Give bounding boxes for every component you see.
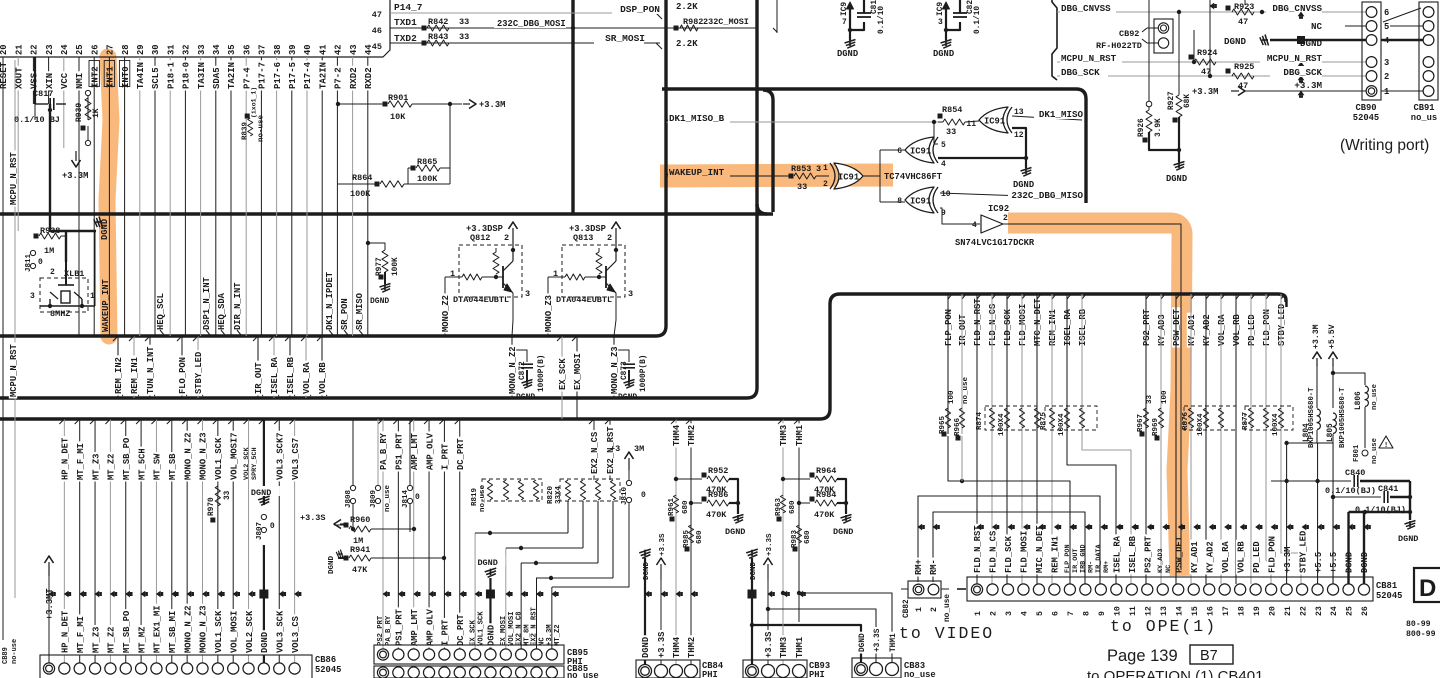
wire MCU pin 28 (INT0) <box>124 57 126 336</box>
svg-text:no_use: no_use <box>904 670 936 678</box>
connector CB84 outline <box>636 660 700 678</box>
svg-text:1K: 1K <box>92 108 101 118</box>
svg-text:L806: L806 <box>1355 391 1363 410</box>
wire box column KY_AD3 <box>1160 294 1162 584</box>
svg-text:NC: NC <box>1311 21 1323 32</box>
wire thick bus V3+H5 (x=757 / y=398) <box>0 0 757 398</box>
svg-text:DGND: DGND <box>487 625 497 646</box>
wire box column FLD_N_RST <box>976 294 978 584</box>
wire dogleg IR_OUT <box>961 294 963 434</box>
wire VSS thick <box>34 57 36 104</box>
svg-text:VOL3_CS: VOL3_CS <box>291 616 301 653</box>
svg-text:no_use: no_use <box>479 484 487 512</box>
wire CB95 pin8 <box>489 578 491 649</box>
svg-text:SR_MISO: SR_MISO <box>355 293 365 330</box>
wire box column KY_AD1 <box>1190 294 1192 584</box>
net label MTC_N_DET (top) <box>1033 297 1041 348</box>
svg-text:0.1/10(BJ): 0.1/10(BJ) <box>1355 505 1406 515</box>
connector CB83 outline <box>852 658 901 678</box>
net label MONO_Z2 <box>441 293 449 333</box>
svg-text:MCPU_N_RST: MCPU_N_RST <box>1061 53 1117 64</box>
resistor array R819 no_use dashed <box>482 479 542 501</box>
wire EX_MOSI band <box>576 336 578 419</box>
net label MT_Z2 (lower) <box>106 625 114 655</box>
connector CB90 pin 4 <box>1366 35 1377 46</box>
svg-text:INT0: INT0 <box>121 66 131 88</box>
wire staircase 3 riser <box>597 501 599 563</box>
net label AMP_LMT (upper) <box>410 431 418 471</box>
junction marker CB86 +3.3MT <box>49 591 54 598</box>
junction marker CB95 pin11 <box>536 591 541 598</box>
svg-text:MT_EX1_MI: MT_EX1_MI <box>153 605 163 653</box>
net label MCPU_N_RST (right) <box>1260 52 1322 63</box>
connector CB85 pin 4 circle <box>423 667 434 678</box>
svg-text:WAKEUP_INT: WAKEUP_INT <box>669 167 725 178</box>
svg-text:KY_AD3: KY_AD3 <box>1157 549 1165 573</box>
svg-text:PS2_PRT: PS2_PRT <box>377 615 385 646</box>
svg-text:100: 100 <box>948 390 956 404</box>
junction marker CB81-4 <box>1023 524 1028 531</box>
svg-text:MTC_N_DET: MTC_N_DET <box>1033 298 1043 346</box>
net label DGND (CB84 lower) <box>641 635 649 659</box>
svg-text:MT_SB_PO: MT_SB_PO <box>122 438 132 480</box>
connector CB86 pin 15 <box>258 663 269 674</box>
svg-text:MONO_N_Z2: MONO_N_Z2 <box>183 605 193 653</box>
connector CB86 outline <box>40 655 312 678</box>
svg-text:R969: R969 <box>1152 417 1160 436</box>
svg-text:no_use: no_use <box>1371 438 1379 464</box>
connector CB95 pin 8 circle <box>485 649 496 660</box>
net label VOL_RB (CB81) <box>1236 540 1244 575</box>
net label +5.5 (CB81) <box>1313 550 1321 574</box>
connector CB90 pin 1 <box>1366 86 1377 97</box>
net label VOL2_SCK (lower) <box>244 609 252 654</box>
svg-text:VOL3_SCK7: VOL3_SCK7 <box>275 432 285 480</box>
svg-text:1: 1 <box>915 607 924 612</box>
svg-text:VOL_MOSI7: VOL_MOSI7 <box>229 432 239 480</box>
svg-text:22: 22 <box>30 44 40 55</box>
wire C841 left riser <box>1332 497 1334 584</box>
connector CB86 pin 16 <box>274 663 285 674</box>
junction marker RM <box>918 524 923 531</box>
svg-text:13: 13 <box>1160 606 1169 616</box>
svg-text:SR_MOSI: SR_MOSI <box>605 33 645 44</box>
junction markers top wires <box>1210 3 1215 10</box>
connector CB93 pin 1 <box>746 665 759 678</box>
svg-text:DGND: DGND <box>837 49 858 59</box>
net label AMP_OLV (upper) <box>425 431 433 471</box>
net label P17-4 <box>303 60 311 90</box>
svg-text:TA2IN: TA2IN <box>318 62 328 89</box>
resistor R965 100 (box) <box>945 408 950 428</box>
net label TUN_N_INT <box>146 345 154 396</box>
svg-text:52045: 52045 <box>315 665 341 675</box>
svg-text:no_use: no_use <box>567 671 599 678</box>
wire box column FLD_MOSI <box>1021 294 1023 584</box>
svg-text:TA3IN: TA3IN <box>197 62 207 89</box>
net label REM_IN1 <box>130 355 138 395</box>
svg-text:24: 24 <box>1330 606 1339 616</box>
net label TA2IN <box>318 60 326 90</box>
svg-text:R864: R864 <box>352 173 372 183</box>
svg-text:SPRY_5CH: SPRY_5CH <box>251 447 259 480</box>
wire DK1_MISO_B <box>666 121 938 123</box>
svg-text:DSP1_N_INT: DSP1_N_INT <box>202 276 212 330</box>
svg-text:P7-4: P7-4 <box>242 67 252 89</box>
wire MCPU_N_RST <box>1057 61 1368 63</box>
svg-text:5: 5 <box>1036 611 1045 616</box>
svg-text:P17-5: P17-5 <box>288 62 298 89</box>
wire STBY_LED stub <box>197 336 199 398</box>
ground DGND (IC91) <box>1025 158 1027 168</box>
U801 MCU bottom edge <box>0 0 390 57</box>
wire TXD2/SR_MOSI <box>390 42 660 44</box>
svg-text:26: 26 <box>1361 606 1370 616</box>
wire MCU pin 23 (XIN) <box>48 57 50 104</box>
svg-text:3: 3 <box>1005 611 1014 616</box>
svg-text:470K: 470K <box>706 510 727 520</box>
svg-text:MT_SW: MT_SW <box>153 453 163 480</box>
junction marker CB81-17 <box>1224 524 1229 531</box>
wire L805 to +5.5 cols <box>1318 442 1333 444</box>
svg-text:R977: R977 <box>376 257 384 276</box>
svg-text:PHI: PHI <box>809 670 825 678</box>
wire MCU pin 39 (P17-5) <box>291 57 293 336</box>
svg-text:RESET: RESET <box>0 61 9 89</box>
wire MCU pin 38 (P17-6) <box>276 57 278 336</box>
svg-text:52045: 52045 <box>1353 113 1379 123</box>
svg-text:34: 34 <box>212 44 222 55</box>
connector CB86 pin 6 <box>120 663 131 674</box>
svg-text:EX_MOSI: EX_MOSI <box>573 353 583 390</box>
svg-text:VOL2_SCK: VOL2_SCK <box>243 446 251 480</box>
wire MCU pin 32 (P18-0) <box>184 57 186 336</box>
svg-text:AMP_OLV: AMP_OLV <box>425 608 435 646</box>
svg-text:P14_7: P14_7 <box>394 2 423 13</box>
svg-text:no_us: no_us <box>1411 113 1437 123</box>
wire staircase 2 <box>506 547 583 549</box>
svg-text:100K: 100K <box>350 189 371 199</box>
svg-text:THM3: THM3 <box>779 637 789 658</box>
junction marker CB95 pin8 <box>486 590 495 599</box>
svg-text:0.1/10: 0.1/10 <box>974 6 982 34</box>
net label FLO_PON <box>178 355 186 395</box>
wire MCU pin 34 (SDA5) <box>215 57 217 336</box>
net label EX_SCK <box>558 357 566 392</box>
svg-text:R926: R926 <box>1138 118 1146 137</box>
wire gate-A output split <box>863 150 905 202</box>
svg-text:C872: C872 <box>519 361 527 380</box>
svg-text:ISEL_RB: ISEL_RB <box>1078 308 1088 346</box>
wire WAKEUP_INT <box>666 175 790 177</box>
ground DGND (CB95) <box>477 556 505 566</box>
svg-text:REM_IN1: REM_IN1 <box>1051 536 1061 573</box>
svg-text:3: 3 <box>628 289 633 299</box>
svg-text:+3.3DSP: +3.3DSP <box>569 224 606 234</box>
svg-text:TA4IN: TA4IN <box>136 62 146 89</box>
svg-text:REM_IN1: REM_IN1 <box>1048 309 1058 346</box>
wire MCU pin 29 (TA4IN) <box>139 57 141 336</box>
svg-text:PS2_PRT: PS2_PRT <box>1142 308 1152 346</box>
wire left edge double <box>2 57 4 640</box>
connector CB89 no-use stub <box>0 646 8 666</box>
net label FLD_SCK (CB81) <box>1004 534 1012 574</box>
net label 232C_DBG_MISO <box>1008 189 1084 200</box>
svg-text:DSP_PON: DSP_PON <box>620 4 660 15</box>
svg-text:3: 3 <box>30 292 35 301</box>
junction marker CB95 pin9 <box>505 591 510 598</box>
wire CB86 MT_SB_MI <box>171 419 173 663</box>
svg-text:R984: R984 <box>816 490 836 500</box>
svg-text:VOL3_SCK: VOL3_SCK <box>275 610 285 653</box>
svg-text:3.9K: 3.9K <box>1155 118 1163 137</box>
net label PS1_PRT <box>394 607 402 647</box>
svg-text:FLP_PON: FLP_PON <box>944 309 954 346</box>
wire box column FLD_SCK <box>1006 294 1008 584</box>
wire CB86 MT_MZ <box>140 419 142 663</box>
wire MCU pin 25 (NMI) <box>78 57 80 336</box>
resistor R819 element 1 <box>487 480 492 500</box>
connector CB91 pin 1 <box>1423 86 1434 97</box>
ground DGND (R952/R986) <box>737 503 739 514</box>
connector CB95 pin 7 circle <box>470 649 481 660</box>
svg-text:2: 2 <box>990 611 999 616</box>
highlight WAKEUP_INT vertical trace (INT2 column) <box>107 57 111 336</box>
connector CB81 pin 14 <box>1173 584 1184 595</box>
svg-text:ISEL_RA: ISEL_RA <box>1063 308 1073 346</box>
svg-text:MT_SB_PO: MT_SB_PO <box>122 611 132 653</box>
net label P18-0 <box>181 60 189 90</box>
svg-text:IC91: IC91 <box>838 173 859 183</box>
svg-text:10K: 10K <box>390 112 406 122</box>
svg-text:THM1: THM1 <box>795 425 805 446</box>
net label THM1 (CB83) <box>888 632 896 654</box>
resistor R901 10K <box>383 102 388 107</box>
buffer IC92 SN74LVC1G17DCKR <box>981 215 1003 233</box>
svg-text:30: 30 <box>151 44 161 55</box>
svg-text:3: 3 <box>1384 58 1389 68</box>
svg-text:XIN: XIN <box>45 73 55 89</box>
net label RXD2 <box>348 66 356 91</box>
connector CB86 pin 4 <box>89 663 100 674</box>
junction marker CB86 MT_Z3 <box>95 591 100 598</box>
net label MONO_N_Z2 (upper) <box>183 431 191 482</box>
junction marker CB86 DGND <box>259 590 268 599</box>
svg-text:CB91: CB91 <box>1413 103 1434 113</box>
junction marker DBG_CNVSS <box>1298 12 1305 17</box>
junction marker CB81-5 <box>1038 524 1043 531</box>
connector CB91 pin 2 <box>1423 71 1434 82</box>
wire staircase 4 riser <box>612 501 614 578</box>
svg-text:F801: F801 <box>1353 444 1361 462</box>
connector CB91 pin 4 <box>1423 35 1434 46</box>
svg-text:CB82: CB82 <box>903 599 911 618</box>
net label RM+ (CB82) <box>914 558 922 577</box>
junction marker CB81-24 <box>1333 524 1338 531</box>
svg-text:INT1: INT1 <box>106 66 116 88</box>
net label PD_LED (CB81) <box>1251 540 1259 575</box>
junction marker CB81-12 <box>1147 524 1152 531</box>
wire vert x=1194 <box>1193 30 1195 62</box>
svg-text:DGND: DGND <box>1166 174 1187 184</box>
net label MCPU_N_RST (lower) <box>9 342 17 398</box>
resistor R819 element 2 <box>503 480 508 500</box>
svg-text:no_use: no_use <box>384 484 392 512</box>
svg-text:THM1: THM1 <box>795 637 805 658</box>
wire CB95 pin2 <box>397 419 399 649</box>
wire dogleg ISEL_RB to pin11 <box>1082 294 1131 584</box>
net label DGND (CB83) <box>857 632 865 654</box>
svg-text:DGND: DGND <box>516 393 535 402</box>
resistor array R875 100X4 <box>1045 406 1097 430</box>
svg-text:21: 21 <box>1284 606 1293 616</box>
svg-text:I_PRT: I_PRT <box>441 619 451 646</box>
svg-text:+3.3S: +3.3S <box>659 533 667 556</box>
wire MCU pin 40 (P17-4) <box>306 57 308 336</box>
svg-text:IR_DATA: IR_DATA <box>1095 544 1103 573</box>
wire thick elbow V3-H1 <box>757 204 767 214</box>
net label VOL_RB <box>318 361 326 396</box>
connector CB83 pin 2 <box>870 663 883 676</box>
connector CB81 pin 21 <box>1281 584 1292 595</box>
crystal XLB1 dashed box <box>40 278 88 312</box>
svg-text:R876: R876 <box>1182 411 1190 430</box>
wire MCU pin 21 (XOUT) <box>17 57 19 231</box>
svg-text:52045: 52045 <box>1376 591 1402 601</box>
tie dash CB82-CB81 <box>957 588 966 590</box>
svg-text:2: 2 <box>1003 214 1008 223</box>
svg-text:FLD_SCK: FLD_SCK <box>1003 308 1013 346</box>
net label VOL3_SCK (lower) <box>275 609 283 654</box>
connector CB86 pin 5 <box>105 663 116 674</box>
capacitor C825 decoupling with IC9 pin3 <box>945 8 947 30</box>
svg-text:MT_Z2: MT_Z2 <box>554 624 562 646</box>
svg-text:P18-1: P18-1 <box>166 61 176 89</box>
svg-text:68K: 68K <box>1184 94 1192 108</box>
svg-text:HP_N_DET: HP_N_DET <box>61 610 71 653</box>
net label STBY_LED <box>194 350 202 395</box>
net label PS1_PRT (upper) <box>394 431 402 471</box>
wire CB81 DGND pins thick <box>1347 512 1349 584</box>
wire CB86 VOL_MOSI <box>232 419 234 663</box>
svg-text:PS1_PRT: PS1_PRT <box>395 432 405 470</box>
highlight WAKEUP_INT horizontal trace to IC91 <box>660 175 893 176</box>
net label EX2_N_RST <box>606 425 614 476</box>
svg-text:SDA5: SDA5 <box>212 67 222 89</box>
svg-text:DBG_CNVSS: DBG_CNVSS <box>1272 3 1322 14</box>
svg-text:33X4: 33X4 <box>555 485 563 504</box>
svg-text:232C_DBG_MISO: 232C_DBG_MISO <box>1011 190 1083 201</box>
svg-text:XOUT: XOUT <box>14 67 24 89</box>
svg-text:P17-7: P17-7 <box>258 62 268 89</box>
wire R901 net <box>338 103 385 105</box>
svg-text:DK1_MISO: DK1_MISO <box>1039 109 1084 120</box>
svg-text:P18-0: P18-0 <box>182 62 192 89</box>
svg-text:32: 32 <box>182 44 192 55</box>
wire MCU pin 35 (TA2IN) <box>230 57 232 336</box>
wire MCU pin 41 (TA2IN) <box>321 57 323 336</box>
svg-text:R965: R965 <box>939 415 947 434</box>
connector CB83 pin 1 <box>855 663 868 676</box>
svg-text:R865: R865 <box>417 157 437 167</box>
resistor R963 680 <box>780 495 785 513</box>
connector CB93 pin 2 <box>762 665 775 678</box>
svg-text:24: 24 <box>60 44 70 55</box>
net label +3.3S (CB84 lower) <box>657 630 665 660</box>
power +3.3DSP arrow (Q813) <box>615 228 617 250</box>
wire CB86 MT_SB_PO <box>125 419 127 663</box>
net label DC_PRT (upper) <box>456 437 464 472</box>
net label MT_SB_PO (lower) <box>122 609 130 654</box>
net label THM3 (lower) <box>779 635 787 659</box>
wire CB95 pin7 <box>474 533 476 649</box>
net label HEQ_SDA <box>217 291 225 331</box>
connector CB81 pin 16 <box>1204 584 1215 595</box>
svg-text:4: 4 <box>972 221 977 230</box>
resistor R923 47 <box>1226 6 1231 11</box>
connector CB85 pin 1 circle <box>377 667 388 678</box>
svg-text:KY_AD3: KY_AD3 <box>1157 314 1167 346</box>
net label TA2IN <box>227 60 235 90</box>
svg-text:VCC: VCC <box>60 72 70 89</box>
svg-text:TXD1: TXD1 <box>394 17 417 28</box>
junction marker CB81-7 <box>1069 524 1074 531</box>
svg-text:R839: R839 <box>241 121 249 140</box>
svg-text:R966: R966 <box>954 417 962 436</box>
wire MCU pin 33 (TA3IN) <box>200 57 202 336</box>
net label MONO_N_Z3 (lower) <box>198 604 206 655</box>
connector CB81 pin 17 <box>1219 584 1230 595</box>
net label DGND <box>486 623 494 647</box>
junction marker CB81-21 <box>1286 524 1291 531</box>
svg-text:DGND: DGND <box>833 527 853 537</box>
junction marker CB81-9 <box>1100 524 1105 531</box>
connector CB81 pin 19 <box>1250 584 1261 595</box>
svg-text:DGND: DGND <box>260 632 270 653</box>
svg-text:3: 3 <box>525 289 530 299</box>
svg-text:R961: R961 <box>668 497 676 516</box>
wire MCU pin 44 (RXD2) <box>367 57 369 336</box>
svg-text:33: 33 <box>459 17 469 27</box>
net label THM4 (upper) <box>672 423 680 447</box>
svg-text:R820: R820 <box>547 485 555 504</box>
connector CB95 pin 12 circle <box>546 649 557 660</box>
net label KY_AD1 (CB81) <box>1190 540 1198 575</box>
svg-text:ISEL_RB: ISEL_RB <box>286 356 296 394</box>
connector CB90 pin 2 <box>1366 71 1377 82</box>
connector CB95 pin 2 circle <box>393 649 404 660</box>
svg-text:DGND: DGND <box>1013 180 1034 190</box>
svg-text:100X4: 100X4 <box>998 413 1006 436</box>
wire box column REM_IN1 <box>1051 294 1053 584</box>
svg-text:DGND: DGND <box>933 49 954 59</box>
svg-text:5: 5 <box>1384 22 1389 32</box>
wire DGND stub <box>66 230 96 232</box>
resistor R985 680 <box>688 525 693 543</box>
net label FLD_SCK (top) <box>1003 307 1011 347</box>
svg-text:33: 33 <box>1146 394 1154 404</box>
svg-text:IRB_GND: IRB_GND <box>1080 544 1088 573</box>
svg-text:42: 42 <box>334 44 344 55</box>
svg-text:PS1_PRT: PS1_PRT <box>395 608 405 646</box>
svg-text:39: 39 <box>288 44 298 55</box>
net label REM_IN2 <box>114 355 122 395</box>
svg-text:17: 17 <box>1222 606 1231 616</box>
connector CB85 pin 3 circle <box>408 667 419 678</box>
resistor R854 33 <box>938 114 943 119</box>
svg-text:3M: 3M <box>634 444 644 454</box>
wire IC92 output to PSW_DET <box>1003 224 1181 570</box>
